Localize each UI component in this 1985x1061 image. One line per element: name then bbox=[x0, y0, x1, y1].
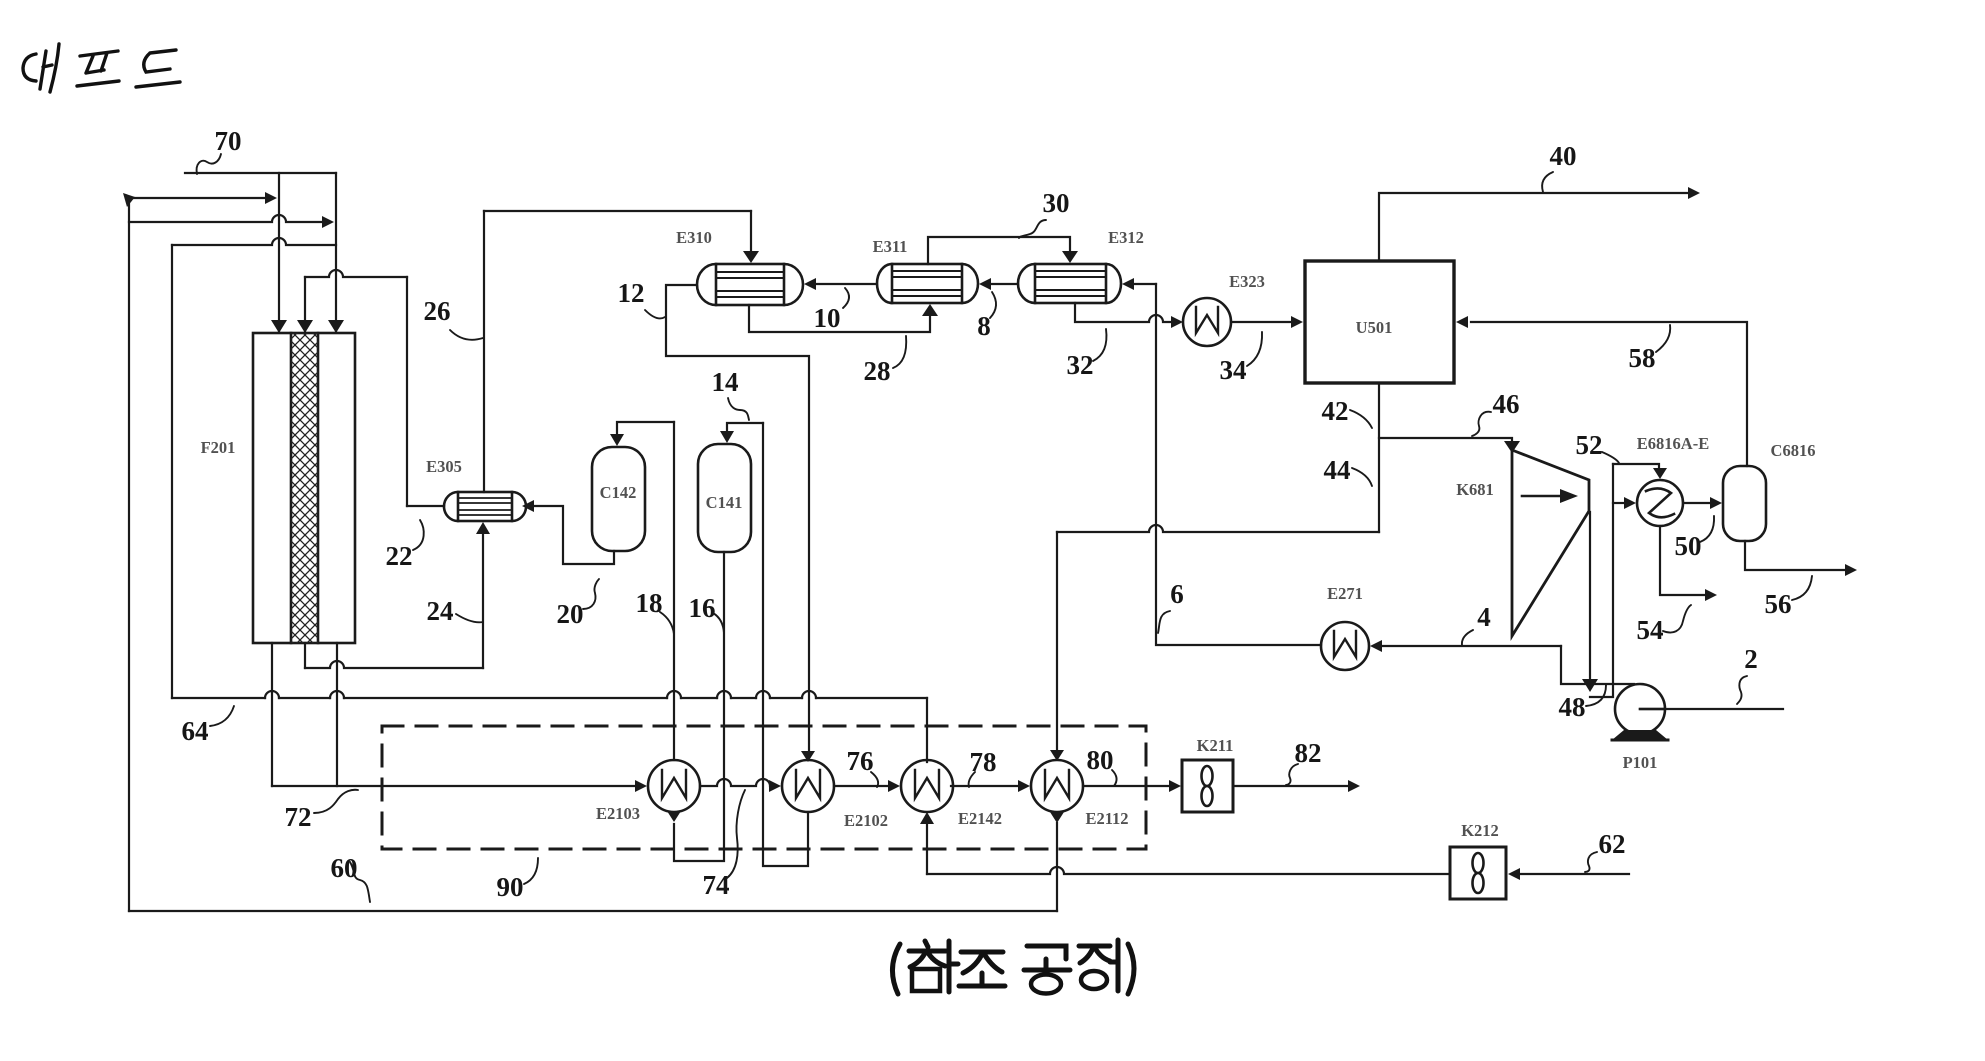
arrow into C6816 left bbox=[1710, 497, 1722, 509]
EQUIPMENT bbox=[253, 261, 1766, 899]
arrow E2102 top bbox=[801, 751, 815, 762]
arrow line2 right bbox=[265, 192, 277, 204]
wire recycle line y198 bbox=[129, 197, 264, 199]
vessel C142 bbox=[592, 447, 645, 551]
arrow into U501 left bbox=[1291, 316, 1303, 328]
leader 90 bbox=[524, 858, 538, 884]
svg-text:C141: C141 bbox=[706, 493, 743, 512]
svg-text:10: 10 bbox=[814, 303, 841, 333]
arrow into F201 top mid bbox=[297, 320, 313, 333]
LEADER HOOKS bbox=[197, 154, 1812, 902]
KOREAN CAPTION (참조 공정) bbox=[892, 940, 1134, 994]
blower K211 bbox=[1182, 760, 1233, 812]
wire left boundary vertical bbox=[128, 198, 130, 911]
hangul pyo bbox=[77, 51, 119, 86]
leader 62 bbox=[1585, 852, 1597, 872]
svg-text:K211: K211 bbox=[1197, 736, 1234, 755]
leader 2 bbox=[1737, 676, 1747, 704]
wire vertical feed B into F201 bbox=[335, 173, 337, 331]
wire train line E2112 to K211 bbox=[1083, 785, 1168, 787]
wire stream 20: C142 bottom to E305 right bbox=[534, 506, 614, 564]
paren left bbox=[892, 944, 900, 994]
wire line y668 to E305 bottom with hop bbox=[305, 661, 483, 668]
wire E2142 bottom stub bbox=[926, 824, 928, 874]
wire stream 56 out of C6816 bottom bbox=[1745, 541, 1845, 570]
wire line 64 y698 with hops bbox=[172, 697, 927, 699]
wire stream 40 from U501 top bbox=[1379, 193, 1688, 261]
wire C141 top feed elbow bbox=[727, 423, 763, 431]
leader 52 bbox=[1602, 452, 1619, 463]
svg-text:E305: E305 bbox=[426, 457, 462, 476]
leader 58 bbox=[1656, 325, 1670, 352]
arrow into E310 top bbox=[743, 251, 759, 263]
leader 72 bbox=[314, 790, 358, 813]
svg-text:50: 50 bbox=[1675, 531, 1702, 561]
wire stream 82 from K211 bbox=[1233, 785, 1348, 787]
wire stream 70 top feed line bbox=[185, 172, 336, 174]
wire bottom line 60 y911 bbox=[129, 910, 1057, 912]
heat exchanger E311 bbox=[877, 264, 978, 303]
heat exchanger E2102 bbox=[782, 760, 834, 812]
arrow into E6816 left bbox=[1624, 497, 1636, 509]
svg-text:12: 12 bbox=[618, 278, 645, 308]
leader 44 bbox=[1352, 468, 1372, 486]
heat exchanger E2103 bbox=[648, 760, 700, 812]
wire stream 58 C6816 top to U501 bbox=[1471, 322, 1747, 466]
hangul gong bbox=[1024, 946, 1070, 970]
wire stream 6 riser and run to E271 bbox=[1156, 284, 1321, 645]
wire E6816 left inlet stub bbox=[1613, 502, 1624, 504]
svg-text:72: 72 bbox=[285, 802, 312, 832]
leader 14 bbox=[728, 398, 749, 420]
leader 34 bbox=[1247, 332, 1262, 366]
NUMBER LABELS bbox=[182, 126, 1792, 902]
arrow into E312 top bbox=[1062, 251, 1078, 263]
arrow into E311 bottom bbox=[922, 304, 938, 316]
svg-text:E6816A-E: E6816A-E bbox=[1637, 434, 1709, 453]
svg-text:64: 64 bbox=[182, 716, 209, 746]
wire stream 54 out of E6816 bottom bbox=[1660, 526, 1705, 595]
leader 78 bbox=[969, 772, 975, 787]
wire line 72 to E2103 bbox=[272, 785, 634, 787]
leader 64 bbox=[210, 706, 234, 726]
wire recycle line y222 with hop bbox=[129, 215, 321, 222]
leader 16 bbox=[713, 613, 724, 633]
arrow stream 56 out bbox=[1845, 564, 1857, 576]
heat exchanger E6816A-E bbox=[1637, 480, 1683, 526]
leader 6 bbox=[1158, 611, 1170, 633]
svg-text:28: 28 bbox=[864, 356, 891, 386]
compressor K681 bbox=[1512, 450, 1589, 636]
hangul cham bbox=[909, 941, 958, 992]
svg-text:4: 4 bbox=[1477, 602, 1491, 632]
arrow K681 inlet bbox=[1504, 441, 1520, 453]
svg-text:E2142: E2142 bbox=[958, 809, 1002, 828]
arrow into E271 right bbox=[1370, 640, 1382, 652]
svg-text:52: 52 bbox=[1576, 430, 1603, 460]
svg-text:26: 26 bbox=[424, 296, 451, 326]
arrow into E2102 left bbox=[769, 780, 781, 792]
wire stream 12: E310 tube out to E2102 top bbox=[666, 285, 809, 750]
svg-text:30: 30 bbox=[1043, 188, 1070, 218]
wire P101 discharge riser bbox=[1561, 646, 1634, 684]
EQUIPMENT TAGS bbox=[201, 228, 1816, 840]
arrow E2112 top bbox=[1050, 750, 1064, 761]
arrow into E2112 left bbox=[1018, 780, 1030, 792]
svg-text:18: 18 bbox=[636, 588, 663, 618]
arrow into C142 top bbox=[610, 434, 624, 446]
wire E2112 bottom to line 60 bbox=[1056, 823, 1058, 911]
arrow into E2103 left bbox=[635, 780, 647, 792]
wire K681 discharge stream 48 elbow bbox=[1590, 464, 1613, 697]
vessel C6816 bbox=[1723, 466, 1766, 541]
svg-text:E2102: E2102 bbox=[844, 811, 888, 830]
svg-text:90: 90 bbox=[497, 872, 524, 902]
arrow E2142 bottom up bbox=[920, 812, 934, 824]
arrow E2103 bottom bbox=[667, 811, 681, 822]
arrow into E310 right bbox=[804, 278, 816, 290]
wire stream 46 to K681 inlet bbox=[1379, 438, 1512, 444]
leader 60 bbox=[350, 862, 370, 902]
leader 56 bbox=[1792, 576, 1812, 600]
svg-text:24: 24 bbox=[427, 596, 454, 626]
leader 12 bbox=[645, 310, 665, 318]
svg-text:32: 32 bbox=[1067, 350, 1094, 380]
wire train line E2102 to E2142 bbox=[834, 785, 889, 787]
wire train line E2103 to E2102 with hops bbox=[700, 779, 770, 786]
leader 28 bbox=[893, 336, 906, 368]
wire E323 to U501 bbox=[1231, 321, 1291, 323]
paren right bbox=[1128, 944, 1134, 994]
wire 64 corner down into E2142 top bbox=[926, 698, 928, 762]
arrow into F201 top left bbox=[271, 320, 287, 333]
wire stream 8 bbox=[992, 283, 1018, 285]
svg-text:E2103: E2103 bbox=[596, 804, 640, 823]
wire C141 bottom to E2103 bottom U-pipe bbox=[674, 552, 724, 861]
arrow into E312 right bbox=[1122, 278, 1134, 290]
svg-text:54: 54 bbox=[1637, 615, 1664, 645]
heat exchanger E2112 bbox=[1031, 760, 1083, 812]
arrow into E305 bottom bbox=[476, 522, 490, 534]
leader 22 bbox=[413, 520, 424, 550]
heat exchanger E271 bbox=[1321, 622, 1369, 670]
wire C142 top feed elbow bbox=[617, 422, 674, 434]
svg-text:E311: E311 bbox=[873, 237, 908, 256]
heat exchanger E310 bbox=[697, 264, 803, 305]
unit U501 bbox=[1305, 261, 1454, 383]
blower K212 bbox=[1450, 847, 1506, 899]
heat exchanger E312 bbox=[1018, 264, 1121, 303]
svg-text:70: 70 bbox=[215, 126, 242, 156]
arrow into E6816 top bbox=[1653, 468, 1667, 479]
svg-text:42: 42 bbox=[1322, 396, 1349, 426]
leader 50 bbox=[1700, 516, 1714, 542]
leader 30 bbox=[1019, 220, 1046, 238]
leader 40 bbox=[1542, 172, 1553, 192]
arrow into F201 top right bbox=[328, 320, 344, 333]
wire K212 line to E2142 bottom with hop bbox=[927, 867, 1450, 874]
pump P101 bbox=[1612, 684, 1668, 740]
vessel C141 bbox=[698, 444, 751, 552]
arrow into K211 left bbox=[1169, 780, 1181, 792]
svg-text:C6816: C6816 bbox=[1771, 441, 1816, 460]
leader 4 bbox=[1462, 630, 1473, 645]
leader 18 bbox=[660, 612, 674, 634]
heat exchanger E323 bbox=[1183, 298, 1231, 346]
svg-text:22: 22 bbox=[386, 541, 413, 571]
svg-text:46: 46 bbox=[1493, 389, 1520, 419]
wire F201 bottom stub left bbox=[271, 643, 273, 786]
arrow line3 right bbox=[322, 216, 334, 228]
wire stream 2 P101 suction bbox=[1640, 708, 1783, 710]
hangul jo bbox=[959, 952, 1005, 986]
arrow stream 82 out bbox=[1348, 780, 1360, 792]
heat exchanger E305 bbox=[444, 492, 526, 521]
arrow into E305 right bbox=[522, 500, 534, 512]
svg-text:E271: E271 bbox=[1327, 584, 1363, 603]
arrow K681 discharge bbox=[1582, 679, 1598, 692]
KOREAN TITLE (대 표 도) bbox=[23, 44, 180, 92]
svg-text:8: 8 bbox=[977, 311, 991, 341]
wire stream 4 P101 to E271 bbox=[1383, 645, 1561, 647]
svg-text:K212: K212 bbox=[1461, 821, 1499, 840]
arrow E2112 bottom bbox=[1050, 812, 1064, 823]
svg-text:F201: F201 bbox=[201, 438, 236, 457]
svg-text:C142: C142 bbox=[600, 483, 637, 502]
column F201 bbox=[253, 333, 355, 643]
wire stream 44 with hop, down to E2112 top bbox=[1057, 525, 1379, 532]
leader 46 bbox=[1472, 412, 1491, 436]
svg-text:74: 74 bbox=[703, 870, 730, 900]
wire vertical x674 E2103 to C142 bbox=[673, 422, 675, 760]
svg-text:40: 40 bbox=[1550, 141, 1577, 171]
dashed battery-limit box 90 bbox=[382, 726, 1146, 849]
svg-text:58: 58 bbox=[1629, 343, 1656, 373]
wire E305 tube out to F201 mid feed bbox=[407, 505, 444, 507]
wire stream 10 bbox=[816, 283, 877, 285]
wire stream 30: E311 top to E312 top bbox=[928, 237, 1070, 264]
svg-text:E323: E323 bbox=[1229, 272, 1265, 291]
leader 26 bbox=[450, 330, 483, 340]
wire stream 52 into E6816 top bbox=[1613, 464, 1659, 468]
hangul do bbox=[136, 50, 180, 87]
svg-text:62: 62 bbox=[1599, 829, 1626, 859]
leader 10 bbox=[843, 288, 849, 308]
leader 70 bbox=[197, 154, 221, 174]
svg-text:6: 6 bbox=[1170, 579, 1184, 609]
wire vertical x172 (64 riser) bbox=[171, 245, 173, 698]
arrow into U501 right bbox=[1456, 316, 1468, 328]
wire F201 bottom stub mid bbox=[304, 643, 306, 668]
wire stream 28: E310 bottom to E311 bottom bbox=[749, 305, 930, 332]
ARROWS bbox=[123, 187, 1857, 880]
wire stream 42 vertical from U501 bottom bbox=[1378, 383, 1380, 532]
leader 76 bbox=[871, 772, 878, 787]
svg-text:2: 2 bbox=[1744, 644, 1758, 674]
svg-text:56: 56 bbox=[1765, 589, 1792, 619]
leader 74 bbox=[727, 790, 745, 878]
wire stream 50 E6816 to C6816 bbox=[1683, 502, 1710, 504]
svg-text:34: 34 bbox=[1220, 355, 1247, 385]
arrow into K212 right bbox=[1508, 868, 1520, 880]
svg-text:20: 20 bbox=[557, 599, 584, 629]
leader 42 bbox=[1350, 410, 1372, 428]
wire line 26: E310 top feed header and E305 shell top bbox=[483, 211, 485, 492]
wire vertical x763 E2102 to C141 U-pipe bbox=[763, 423, 808, 866]
wire stream 32: E312 bottom to E323 with hop bbox=[1075, 303, 1171, 322]
arrow stream 54 out bbox=[1705, 589, 1717, 601]
wire E312 right to riser bbox=[1134, 283, 1156, 285]
svg-text:U501: U501 bbox=[1356, 318, 1393, 337]
arrow into E2142 left bbox=[888, 780, 900, 792]
svg-text:K681: K681 bbox=[1456, 480, 1494, 499]
svg-text:E2112: E2112 bbox=[1085, 809, 1128, 828]
svg-text:76: 76 bbox=[847, 746, 874, 776]
arrow into C141 top bbox=[720, 431, 734, 443]
arrow line2 left up bbox=[123, 193, 135, 207]
svg-text:P101: P101 bbox=[1623, 753, 1658, 772]
svg-text:14: 14 bbox=[712, 367, 739, 397]
svg-text:E310: E310 bbox=[676, 228, 712, 247]
svg-text:48: 48 bbox=[1559, 692, 1586, 722]
hangul dae bbox=[23, 54, 36, 81]
wire F201 bottom stub right bbox=[336, 643, 338, 786]
wire recycle line y245 with hop bbox=[172, 238, 336, 245]
leader 80 bbox=[1112, 770, 1117, 786]
leader 32 bbox=[1093, 329, 1106, 361]
hangul jeong bbox=[1079, 940, 1118, 991]
svg-text:16: 16 bbox=[689, 593, 716, 623]
leader 20 bbox=[583, 579, 599, 609]
leader 24 bbox=[456, 614, 483, 622]
heat exchanger E2142 bbox=[901, 760, 953, 812]
leader 8 bbox=[990, 292, 996, 318]
arrow into E311 right bbox=[979, 278, 991, 290]
wire train line E2142 to E2112 bbox=[951, 785, 1019, 787]
leader 82 bbox=[1286, 764, 1298, 785]
svg-text:E312: E312 bbox=[1108, 228, 1144, 247]
svg-text:44: 44 bbox=[1324, 455, 1351, 485]
arrow stream 40 out bbox=[1688, 187, 1700, 199]
leader 54 bbox=[1663, 605, 1691, 633]
svg-text:80: 80 bbox=[1087, 745, 1114, 775]
arrow into E323 bbox=[1171, 316, 1183, 328]
wire vertical feed A into F201 bbox=[278, 173, 280, 331]
leader 48 bbox=[1586, 685, 1606, 706]
